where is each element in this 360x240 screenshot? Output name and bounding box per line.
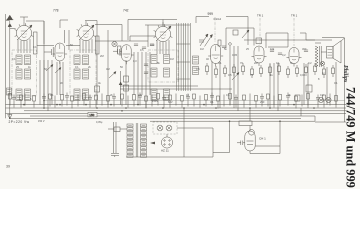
wire speaker feed bbox=[306, 38, 345, 123]
wire vertical harness bbox=[40, 21, 336, 111]
coil L8 bbox=[74, 69, 80, 79]
diode arrow D1 bbox=[119, 82, 123, 86]
svg-text:0,3: 0,3 bbox=[133, 59, 137, 63]
IF can S1 outline bbox=[12, 50, 37, 96]
trimmer C18 bbox=[229, 43, 232, 46]
coil L6 bbox=[25, 89, 31, 101]
capacitor C25 bbox=[237, 141, 245, 146]
coil L16 bbox=[164, 55, 170, 64]
svg-text:2M: 2M bbox=[254, 61, 258, 65]
wire bus 5 bbox=[30, 115, 315, 117]
resistor R26 bbox=[124, 76, 129, 82]
wire bus 6 bbox=[10, 117, 301, 119]
junction dots bbox=[9, 100, 315, 122]
potentiometer arrow P2 bbox=[55, 68, 61, 74]
svg-text:50: 50 bbox=[70, 43, 73, 47]
svg-text:0,5: 0,5 bbox=[140, 48, 144, 52]
svg-text:3k: 3k bbox=[288, 93, 291, 97]
svg-text:0,2: 0,2 bbox=[308, 61, 312, 65]
svg-text:C13-2: C13-2 bbox=[214, 17, 222, 21]
label 150 box bbox=[88, 112, 97, 117]
svg-text:0,1: 0,1 bbox=[12, 57, 16, 61]
divider TR1 bbox=[259, 18, 261, 45]
svg-text:778: 778 bbox=[53, 9, 59, 13]
coil L41 bbox=[193, 67, 199, 75]
divider 999 bbox=[214, 17, 216, 42]
svg-text:TR 1: TR 1 bbox=[291, 14, 298, 18]
svg-text:0,1: 0,1 bbox=[276, 61, 280, 65]
resistor R15 bbox=[218, 40, 221, 46]
svg-text:0,1: 0,1 bbox=[33, 45, 37, 49]
svg-text:25: 25 bbox=[246, 47, 249, 51]
svg-text:150V: 150V bbox=[152, 99, 158, 103]
coil L9 bbox=[74, 89, 80, 101]
svg-text:25: 25 bbox=[16, 65, 19, 69]
svg-text:0,5: 0,5 bbox=[228, 73, 232, 77]
coil L17 bbox=[164, 68, 170, 77]
svg-text:0,1: 0,1 bbox=[75, 65, 79, 69]
resistor R22 bbox=[295, 95, 300, 101]
coil L15 bbox=[151, 89, 157, 101]
dashed box rectifier bbox=[153, 122, 177, 134]
tube V3 bbox=[154, 22, 173, 54]
svg-text:0,05: 0,05 bbox=[232, 53, 238, 57]
antenna A1 bbox=[6, 15, 13, 26]
jack J1 bbox=[318, 97, 323, 102]
coil L14 bbox=[151, 68, 157, 77]
resistor R1 bbox=[34, 32, 38, 54]
band switch S4 bbox=[177, 23, 191, 91]
jack J2 bbox=[326, 97, 331, 102]
potentiometer arrow Q bbox=[242, 30, 249, 38]
resistor row 2 bbox=[206, 63, 335, 78]
capacitor C16 bbox=[144, 72, 148, 74]
capacitor C17 bbox=[222, 46, 226, 48]
svg-text:100: 100 bbox=[150, 43, 155, 47]
resistor R16 bbox=[233, 30, 238, 35]
svg-text:999: 999 bbox=[208, 12, 214, 16]
transformer T2 secondary bbox=[321, 51, 326, 53]
svg-text:2k: 2k bbox=[88, 65, 91, 69]
svg-text:4k: 4k bbox=[98, 81, 101, 85]
wire antenna lead bbox=[9, 21, 11, 118]
coil L13 bbox=[151, 55, 157, 64]
svg-text:8: 8 bbox=[318, 77, 320, 81]
lamp P3 bbox=[166, 125, 172, 131]
resistor capacitor row bbox=[9, 93, 338, 109]
capacitor C7 bbox=[142, 47, 146, 49]
coil L4 bbox=[25, 55, 31, 65]
svg-text:5k: 5k bbox=[224, 47, 227, 51]
svg-text:150 V: 150 V bbox=[38, 120, 45, 123]
capacitor C4 bbox=[44, 47, 53, 57]
lamp P2 bbox=[157, 125, 163, 131]
svg-text:2M: 2M bbox=[100, 54, 104, 58]
svg-text:0,1: 0,1 bbox=[210, 100, 214, 104]
svg-text:10k: 10k bbox=[270, 47, 275, 51]
svg-text:CH 1: CH 1 bbox=[259, 137, 266, 141]
svg-text:AZ 11: AZ 11 bbox=[161, 149, 169, 153]
wire magic eye loop bbox=[250, 121, 280, 153]
resistor R21 bbox=[256, 38, 262, 44]
svg-text:0,2: 0,2 bbox=[320, 93, 324, 97]
resistor R2 bbox=[96, 36, 100, 54]
svg-text:1k: 1k bbox=[28, 65, 31, 69]
resistor R9 bbox=[118, 46, 121, 54]
capacitor C8 bbox=[150, 44, 154, 46]
tube V5 bbox=[119, 45, 134, 65]
svg-text:50: 50 bbox=[120, 65, 123, 69]
svg-text:0,5: 0,5 bbox=[138, 93, 142, 97]
divider TR2 bbox=[293, 18, 295, 46]
coil L3 bbox=[16, 89, 22, 101]
mains cord bbox=[111, 122, 119, 157]
wire left border bbox=[5, 14, 7, 118]
potentiometer arrow P4 bbox=[109, 72, 116, 79]
svg-text:75: 75 bbox=[250, 73, 253, 77]
svg-text:0,1: 0,1 bbox=[218, 61, 222, 65]
resistor R11 bbox=[95, 86, 100, 92]
svg-text:150: 150 bbox=[89, 113, 94, 117]
svg-text:1k: 1k bbox=[270, 73, 273, 77]
tube V1 bbox=[15, 21, 34, 53]
tube V10 magic eye bbox=[245, 126, 255, 152]
svg-text:0,02: 0,02 bbox=[300, 73, 306, 77]
speaker LS1 bbox=[327, 41, 342, 63]
fuse F1 bbox=[114, 127, 120, 132]
svg-text:40: 40 bbox=[206, 57, 209, 61]
value labels bbox=[12, 43, 338, 104]
wire fuse link bbox=[108, 128, 114, 130]
coil L5 bbox=[25, 69, 31, 79]
wire top interconnects bbox=[6, 17, 332, 51]
svg-text:1M: 1M bbox=[170, 57, 174, 61]
capacitor C15 bbox=[144, 64, 148, 66]
potentiometer arrow P bbox=[46, 65, 53, 72]
svg-text:742: 742 bbox=[123, 9, 129, 13]
svg-text:8k: 8k bbox=[157, 61, 160, 65]
coil L18 bbox=[164, 89, 170, 101]
wire bus 4 bbox=[6, 113, 347, 115]
potentiometer arrow P3 bbox=[232, 73, 239, 81]
wire transformer bottom bbox=[120, 108, 213, 157]
svg-text:39: 39 bbox=[6, 165, 10, 169]
lamp P1 bbox=[112, 41, 117, 46]
wire bus 3 bbox=[24, 110, 346, 112]
svg-text:0,2: 0,2 bbox=[282, 53, 286, 57]
tube V2 bbox=[77, 21, 96, 53]
transformer T2 primary bbox=[315, 46, 321, 67]
svg-text:0,05μ: 0,05μ bbox=[96, 121, 103, 124]
wire output return bbox=[301, 108, 346, 122]
wire mid horizontals bbox=[37, 46, 232, 90]
coil L11 bbox=[83, 69, 89, 79]
capacitor C23 bbox=[306, 85, 312, 92]
rectifier tube V9 bbox=[161, 134, 172, 148]
wire bus 2 bbox=[6, 107, 347, 109]
coil L10 bbox=[83, 55, 89, 65]
wire rectifier out bbox=[177, 121, 230, 157]
wire bus 7 bbox=[150, 120, 315, 122]
svg-text:0,1: 0,1 bbox=[334, 81, 338, 85]
capacitor C20 bbox=[270, 50, 274, 52]
svg-text:300: 300 bbox=[302, 47, 307, 51]
tube V7 bbox=[252, 46, 267, 66]
wire magic eye feed bbox=[249, 108, 251, 121]
coil L40 bbox=[193, 56, 199, 64]
svg-text:TR 1: TR 1 bbox=[257, 14, 264, 18]
svg-text:0,5: 0,5 bbox=[196, 67, 200, 71]
svg-text:744/749 M und 999 F: 744/749 M und 999 F bbox=[343, 87, 357, 189]
arrow through V3 bbox=[156, 26, 171, 41]
capacitor C22 bbox=[304, 50, 308, 52]
transformer T1 bbox=[127, 123, 147, 157]
IF can S2 outline bbox=[70, 50, 96, 96]
resistor R30 bbox=[239, 121, 252, 126]
coil L1 bbox=[16, 55, 22, 65]
wire bus 1 bbox=[6, 104, 347, 106]
coil L2 bbox=[16, 69, 22, 79]
svg-text:2P=220 Vw: 2P=220 Vw bbox=[9, 120, 30, 124]
tube V8 bbox=[287, 48, 302, 67]
svg-text:Philips: Philips bbox=[342, 65, 348, 83]
resistor R27 bbox=[124, 85, 129, 91]
tube V6 bbox=[208, 45, 223, 67]
svg-text:250: 250 bbox=[260, 100, 265, 104]
arrow through V2 bbox=[79, 25, 94, 40]
coil L30 bbox=[7, 88, 12, 95]
capacitor C21 bbox=[278, 53, 282, 55]
svg-text:1M: 1M bbox=[200, 47, 204, 51]
capacitor C5 bbox=[113, 49, 122, 54]
svg-text:0,1: 0,1 bbox=[226, 93, 230, 97]
mains arrow bbox=[8, 115, 12, 119]
svg-text:5: 5 bbox=[30, 97, 32, 101]
capacitor C6 bbox=[134, 44, 138, 46]
svg-text:4M: 4M bbox=[106, 67, 110, 71]
wire bus 8 bbox=[44, 100, 345, 102]
coil L12 bbox=[83, 89, 89, 101]
speaker magnet M1 bbox=[320, 61, 324, 65]
IF can S3 outline bbox=[148, 50, 178, 82]
svg-text:5k: 5k bbox=[290, 61, 293, 65]
arrow chassis bbox=[150, 142, 155, 145]
svg-text:60V: 60V bbox=[168, 100, 173, 104]
tube V4 bbox=[53, 43, 68, 64]
variable capacitor C13 bbox=[199, 34, 213, 47]
arrow through V1 bbox=[17, 25, 32, 40]
svg-text:0,1: 0,1 bbox=[50, 93, 54, 97]
coil L7 bbox=[74, 55, 80, 65]
